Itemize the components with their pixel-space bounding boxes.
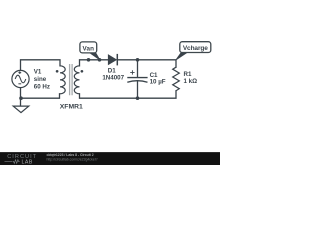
label C1 xyxy=(150,72,166,86)
junction ground node xyxy=(19,96,23,100)
node Vcharge flag xyxy=(176,42,211,60)
svg-text:Vcharge: Vcharge xyxy=(183,45,208,52)
svg-text:V1: V1 xyxy=(34,68,42,75)
diode D1 xyxy=(108,54,117,66)
svg-text:1N4007: 1N4007 xyxy=(102,74,124,81)
wire top primary xyxy=(21,60,61,71)
svg-text:60 Hz: 60 Hz xyxy=(34,83,50,90)
transformer phase dots xyxy=(56,70,84,73)
label V1 values xyxy=(34,68,50,90)
junction dots C1 xyxy=(136,58,140,100)
label D1 xyxy=(102,68,124,82)
wire top secondary xyxy=(80,60,177,67)
resistor R1 xyxy=(173,67,180,91)
wire bottom primary xyxy=(21,88,60,106)
transformer XFMR1 xyxy=(60,66,80,94)
capacitor C1 wires xyxy=(137,60,139,98)
svg-text:http://circuitlab.com/c/e22g4c: http://circuitlab.com/c/e22g4cke7/ xyxy=(47,157,98,161)
svg-text:sine: sine xyxy=(34,76,47,83)
svg-text:cktqtr1223 / Labs 8 - Circuit: cktqtr1223 / Labs 8 - Circuit 2 xyxy=(47,153,94,157)
label XFMR1 xyxy=(60,103,83,110)
watermark text xyxy=(47,153,98,161)
watermark bar xyxy=(0,152,220,165)
label R1 xyxy=(184,71,198,85)
svg-text:Van: Van xyxy=(82,45,94,52)
ground xyxy=(13,106,29,113)
junction dots top rail xyxy=(87,58,102,62)
svg-text:XFMR1: XFMR1 xyxy=(60,103,83,110)
svg-text:1 kΩ: 1 kΩ xyxy=(184,78,198,85)
wire bottom secondary xyxy=(80,91,177,98)
transformer core xyxy=(70,64,73,95)
node Van flag xyxy=(80,42,100,60)
voltage source V1 xyxy=(12,70,29,87)
capacitor C1 xyxy=(127,70,147,82)
logo CircuitLab xyxy=(5,154,38,165)
svg-text:LAB: LAB xyxy=(22,160,33,165)
svg-text:10 µF: 10 µF xyxy=(150,78,166,85)
